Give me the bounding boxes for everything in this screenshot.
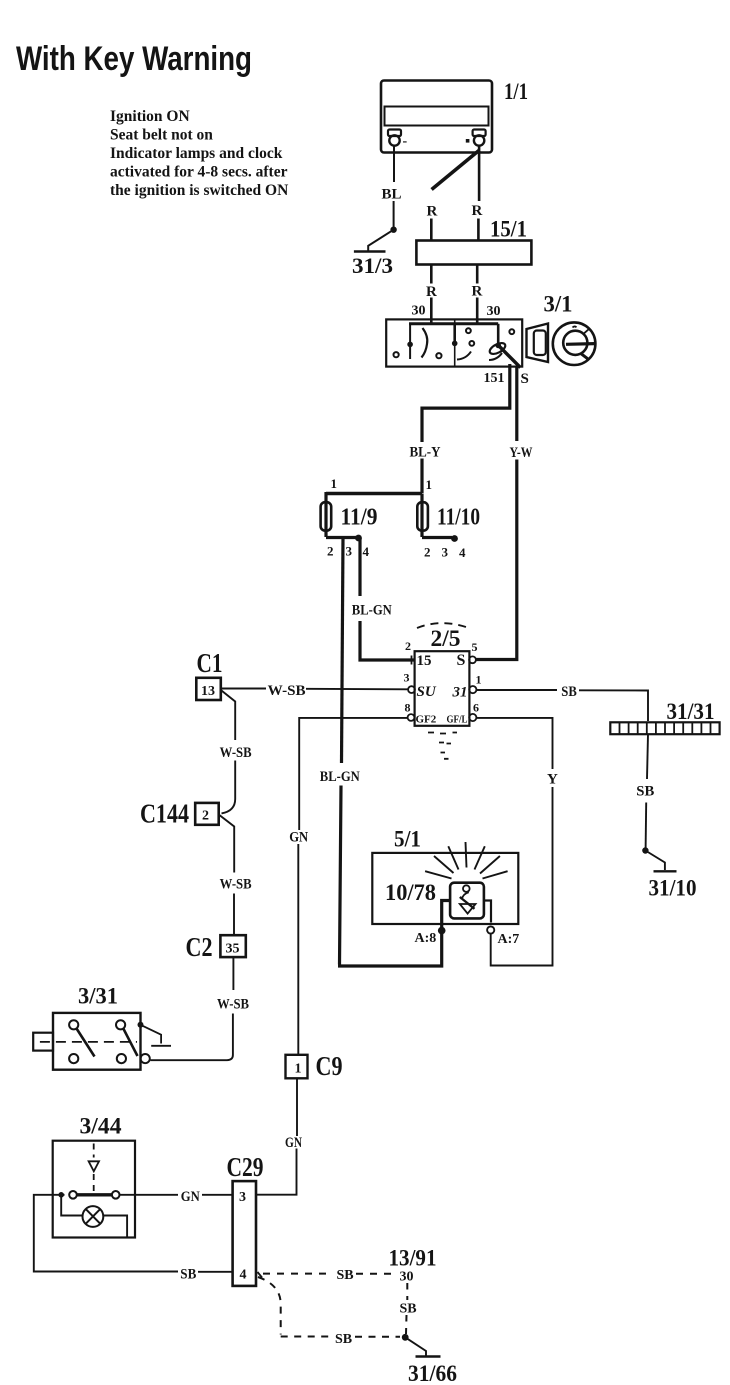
- svg-text:151: 151: [484, 371, 505, 386]
- 2/5 pin numbers: [404, 639, 482, 715]
- wire W-SB C1 to 2/5 SU: [221, 688, 408, 691]
- wire GN C9 to C29: [257, 1078, 298, 1194]
- connector C2: [186, 932, 246, 962]
- dashed wire SB 13/91 to node: [406, 1283, 407, 1334]
- wire GN 3/44 to C29: [120, 1194, 233, 1196]
- svg-text:SB: SB: [400, 1302, 417, 1317]
- svg-text:3/44: 3/44: [80, 1114, 123, 1139]
- pin labels 11/9: [327, 544, 370, 560]
- wire W-SB C144 to C2: [219, 815, 235, 936]
- key cylinder side view: [527, 324, 549, 363]
- svg-text:Ignition ON: Ignition ON: [110, 108, 190, 125]
- svg-text:SB: SB: [335, 1332, 352, 1347]
- 2/5 terminal bobbles: [408, 656, 477, 722]
- svg-text:BL-GN: BL-GN: [320, 769, 360, 785]
- svg-text:2: 2: [327, 544, 334, 559]
- svg-text:5/1: 5/1: [394, 827, 421, 852]
- svg-text:35: 35: [226, 942, 240, 957]
- svg-text:30: 30: [487, 304, 501, 319]
- svg-text:Indicator lamps and clock: Indicator lamps and clock: [110, 145, 283, 162]
- indicator lamp 11/9: [321, 492, 378, 537]
- wire SB 3/44 loop to C29 pin4: [34, 1195, 233, 1272]
- svg-text:3: 3: [239, 1190, 246, 1205]
- svg-text:R: R: [427, 204, 438, 220]
- connector C9: [286, 1051, 343, 1081]
- ground 31/3: [354, 230, 394, 252]
- buckle switch 3/44: [53, 1114, 135, 1238]
- wire R fuse to ignition switch (left): [430, 265, 433, 325]
- auxiliary contact at 3/31: [141, 1025, 172, 1046]
- ignition switch divider: [454, 319, 456, 366]
- 2/5 internal terminal labels: [416, 652, 468, 726]
- indicator lamp 11/10: [417, 494, 480, 538]
- node at 3/31 top right: [138, 1022, 144, 1028]
- node above 31/10: [642, 847, 648, 853]
- ignition switch internal contacts left section: [394, 324, 442, 359]
- svg-text:R: R: [472, 203, 483, 219]
- svg-text:31/66: 31/66: [408, 1361, 457, 1385]
- svg-text:3/1: 3/1: [544, 292, 573, 317]
- svg-text:3: 3: [346, 544, 353, 559]
- svg-text:1: 1: [476, 673, 482, 687]
- svg-text:S: S: [521, 371, 529, 387]
- connector C144: [140, 799, 219, 829]
- tick at C29 pin4 exit: [258, 1272, 263, 1278]
- svg-text:1/1: 1/1: [504, 79, 528, 104]
- lamp housing 10/78: [442, 883, 491, 928]
- seat belt person icon: [460, 885, 476, 913]
- lamp in 3/44: [83, 1206, 104, 1227]
- wire R diagonal from battery positive: [432, 150, 480, 190]
- svg-text:C2: C2: [186, 932, 213, 962]
- svg-text:R: R: [426, 284, 437, 300]
- wire BL-GN stub to 2/5 pin 15 (thick): [360, 538, 414, 661]
- dashed wire SB C29 pin4 loop to ground node: [258, 1277, 400, 1337]
- svg-text:SB: SB: [180, 1267, 196, 1283]
- wire R fuse to ignition switch (right): [476, 265, 479, 325]
- control unit 2/5: [415, 626, 470, 726]
- svg-text:GF2: GF2: [416, 714, 437, 726]
- svg-text:31: 31: [452, 685, 468, 701]
- 3/31 output ring terminal: [141, 1054, 150, 1063]
- ignition switch internal bus bar: [409, 322, 498, 325]
- dashed wire SB C29 to 13/91: [263, 1273, 398, 1275]
- svg-text:13: 13: [201, 684, 215, 699]
- wire R left vertical to fuse: [430, 219, 433, 241]
- blob end pin4 stub 11/9: [355, 535, 362, 542]
- svg-text:8: 8: [405, 701, 411, 715]
- svg-text:2/5: 2/5: [431, 626, 461, 651]
- pin labels 11/10: [424, 545, 466, 561]
- ground 31/66: [405, 1337, 440, 1356]
- svg-text:GN: GN: [285, 1135, 302, 1151]
- svg-text:6: 6: [473, 701, 479, 715]
- svg-text:11/9: 11/9: [341, 505, 378, 531]
- svg-text:S: S: [457, 652, 466, 669]
- svg-text:activated for 4-8 secs. after: activated for 4-8 secs. after: [110, 164, 288, 181]
- svg-text:31/31: 31/31: [667, 699, 715, 724]
- svg-text:W-SB: W-SB: [268, 683, 306, 699]
- svg-text:11/10: 11/10: [437, 505, 480, 531]
- svg-text:4: 4: [459, 545, 466, 560]
- svg-text:SB: SB: [636, 784, 654, 800]
- svg-text:Y: Y: [547, 772, 558, 788]
- svg-text:30: 30: [412, 304, 426, 319]
- wire BL from battery negative: [393, 146, 395, 228]
- svg-text:3/31: 3/31: [78, 984, 118, 1009]
- wire BL-GN long to A:8 (thick): [338, 538, 442, 967]
- svg-text:With Key Warning: With Key Warning: [16, 40, 252, 78]
- svg-text:3: 3: [442, 545, 449, 560]
- svg-text:3: 3: [404, 671, 410, 685]
- ignition switch internal contacts right section: [488, 324, 514, 360]
- svg-text:C29: C29: [227, 1152, 264, 1182]
- svg-text:BL: BL: [382, 187, 402, 203]
- connector C29: [227, 1152, 264, 1286]
- dashed marks below 2/5: [428, 733, 457, 759]
- svg-text:2: 2: [405, 639, 411, 653]
- terminal A:7: [487, 926, 494, 933]
- ground 31/10: [645, 851, 676, 872]
- svg-text:1: 1: [295, 1062, 302, 1077]
- svg-text:GN: GN: [181, 1189, 200, 1205]
- connector C1: [196, 648, 222, 700]
- svg-text:A:8: A:8: [415, 931, 437, 946]
- svg-text:10/78: 10/78: [385, 880, 436, 905]
- warning unit 5/1 box: [372, 827, 518, 925]
- svg-text:1: 1: [331, 476, 338, 491]
- svg-text:31/10: 31/10: [649, 876, 697, 901]
- ignition switch 3/1 box: [386, 319, 522, 366]
- wire W-SB C2 to 3/31: [151, 957, 234, 1060]
- ignition switch internal contacts middle section: [455, 324, 474, 360]
- svg-text:2: 2: [202, 809, 209, 824]
- seat belt switch 3/31: [33, 984, 140, 1070]
- wire S / Y-W (thick): [475, 366, 517, 660]
- svg-text:4: 4: [240, 1268, 247, 1283]
- node on BL wire: [390, 227, 396, 233]
- fuse box 15/1: [416, 241, 531, 265]
- wire SB 2/5 pin31 to 31/31: [476, 690, 648, 721]
- svg-text:30: 30: [400, 1270, 414, 1285]
- svg-text:SB: SB: [337, 1268, 354, 1283]
- switch arm S contact: [497, 344, 520, 368]
- svg-text:A:7: A:7: [498, 932, 520, 947]
- wire to 3/44 lamp: [61, 1195, 82, 1216]
- svg-text:4: 4: [363, 544, 370, 559]
- svg-text:15: 15: [417, 653, 432, 669]
- svg-text:BL-Y: BL-Y: [410, 445, 441, 461]
- svg-text:W-SB: W-SB: [220, 877, 252, 893]
- svg-text:C1: C1: [197, 648, 223, 678]
- svg-text:W-SB: W-SB: [217, 997, 249, 1013]
- svg-text:Y-W: Y-W: [510, 445, 533, 461]
- svg-text:the ignition is switched ON: the ignition is switched ON: [110, 182, 288, 199]
- terminal A:8: [438, 927, 446, 935]
- svg-text:1: 1: [426, 477, 433, 492]
- svg-text:C9: C9: [316, 1051, 343, 1081]
- wire GN 2/5 GF2 to C9: [298, 718, 407, 1055]
- ground bus bar 31/31: [610, 699, 719, 734]
- wire 11/9 bottom stub: [326, 536, 357, 539]
- note text block: [110, 108, 288, 199]
- svg-text:BL-GN: BL-GN: [352, 603, 392, 619]
- svg-text:R: R: [472, 284, 483, 300]
- blob end 11/10 stub: [451, 535, 458, 542]
- wire 11/10 bottom stub: [422, 536, 452, 539]
- svg-text:SB: SB: [561, 684, 577, 700]
- svg-text:13/91: 13/91: [389, 1246, 437, 1271]
- ground node: [402, 1334, 409, 1341]
- svg-text:-: -: [403, 134, 408, 149]
- wire 151 to BL-Y (thick): [422, 364, 510, 493]
- svg-text:GN: GN: [289, 830, 308, 846]
- key switch face 3/1: [553, 322, 596, 365]
- svg-text:SU: SU: [417, 684, 437, 700]
- svg-text:5: 5: [472, 640, 478, 654]
- svg-text:15/1: 15/1: [490, 217, 527, 242]
- dashed arc above 2/5: [417, 623, 468, 628]
- svg-text:C144: C144: [140, 799, 189, 829]
- battery 1/1: [381, 79, 528, 153]
- wire Y 2/5 GF/L to A:7: [476, 718, 552, 966]
- svg-text:W-SB: W-SB: [220, 745, 252, 761]
- wire rail pin1 of lamps (thick): [326, 492, 422, 495]
- wire W-SB C1 to C144: [221, 690, 235, 813]
- wire SB 31/31 to ground: [646, 734, 648, 849]
- node 3/44: [58, 1192, 64, 1198]
- wire R right vertical to fuse: [477, 146, 480, 241]
- svg-text:GF/L: GF/L: [447, 714, 468, 726]
- svg-text:Seat belt not on: Seat belt not on: [110, 127, 213, 144]
- svg-text:2: 2: [424, 545, 431, 560]
- svg-text:31/3: 31/3: [352, 253, 393, 278]
- lamp rays 10/78: [425, 842, 508, 879]
- key cylinder inner: [534, 331, 546, 356]
- wire 3/44 lamp right leg: [103, 1216, 127, 1237]
